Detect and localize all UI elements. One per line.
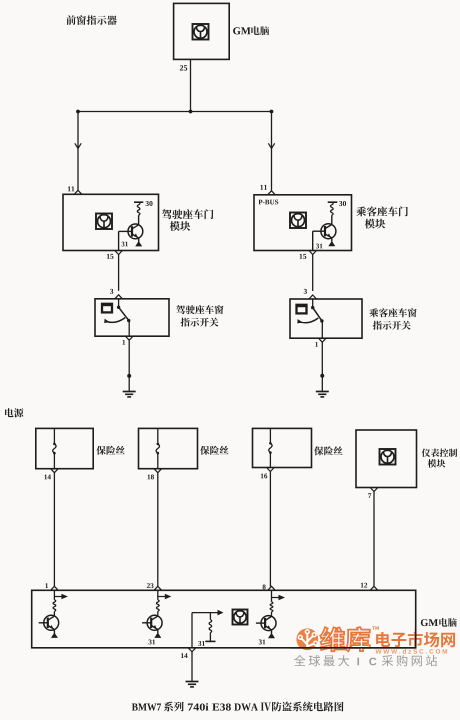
branch arrow T2 — [158, 594, 172, 599]
switch S1 throw arc — [104, 318, 125, 323]
connector pin 3 S2 — [309, 295, 317, 299]
label 16 (F3) — [261, 474, 267, 479]
watermark url — [376, 649, 448, 654]
fuse F2 box — [139, 428, 198, 468]
wire F3 to GM pin8 — [269, 472, 271, 587]
label 1 (S1) — [123, 340, 126, 345]
module U3: passenger door module box — [254, 195, 352, 251]
pin 25 label — [180, 65, 187, 70]
label passenger door module L2 — [365, 219, 386, 229]
label 14 (U5) — [181, 653, 187, 658]
junction dot right — [270, 110, 274, 114]
connector pin 12 (U5) — [370, 586, 378, 590]
label GM电脑 (U5) — [421, 618, 457, 627]
wire pin14 to ground — [191, 652, 193, 682]
watermark slogan — [294, 655, 437, 666]
pin 8 label (U5) — [263, 585, 266, 590]
base stub Q3 — [39, 622, 48, 624]
icon in U3 — [290, 213, 306, 229]
fuse F3 box — [253, 428, 312, 467]
label instrument module L1 — [422, 449, 458, 458]
switch S2 contact — [311, 299, 324, 338]
connector pin 1 (U5) — [51, 586, 59, 590]
transistor Q5 — [261, 616, 276, 631]
base wire Q2 — [313, 231, 325, 250]
connector pin 23 (U5) — [154, 586, 162, 590]
connector pin 14 (U5) — [188, 648, 196, 652]
label 15 (U3) — [300, 254, 307, 259]
emitter terminal Q3 — [51, 630, 58, 638]
window icon S1 — [102, 304, 112, 313]
junction dot S2 ground wire — [320, 374, 324, 378]
label instrument module L2 — [428, 459, 446, 467]
connector pin 7 (U4) — [370, 488, 378, 492]
P-BUS label — [258, 200, 278, 205]
flow arrow right drop — [268, 143, 274, 148]
terminal 31 bar — [205, 640, 215, 642]
switch S2: passenger window indicator switch box — [290, 299, 362, 338]
internal node wire 31 — [192, 610, 224, 616]
ground G1 — [123, 392, 136, 397]
label 31 (U2) — [122, 242, 128, 247]
fuse F2 element — [156, 428, 159, 468]
caption title — [132, 702, 344, 712]
wire horizontal branch — [78, 111, 272, 113]
junction dot S1 ground wire — [127, 374, 131, 378]
module U4: instrument control module box — [356, 430, 417, 488]
wire S1-1 to ground — [128, 340, 130, 391]
wire U1 pin25 down — [190, 59, 192, 111]
watermark TM — [372, 626, 379, 629]
switch S1: driver window indicator switch box — [95, 299, 169, 336]
label 3 (S2) — [304, 289, 307, 294]
label 31 (U3) — [316, 244, 322, 249]
label driver window switch L2 — [180, 318, 218, 327]
connector pin 14 (F1) — [51, 469, 59, 473]
icon in U4 — [380, 449, 396, 465]
label power supply — [5, 408, 23, 417]
label 1 (S2) — [315, 342, 318, 347]
pin 11 label (left) — [68, 186, 74, 191]
terminal 30 bar (U2) — [134, 201, 143, 203]
module U1: GM computer box — [174, 3, 230, 59]
label 7 (U4) — [368, 493, 371, 498]
label passenger window switch L2 — [373, 321, 411, 330]
wire S2-1 to ground — [321, 342, 323, 391]
connector pin 11 left — [74, 190, 82, 194]
connector pin 1 S2 — [319, 338, 327, 342]
module U2: driver door module box — [63, 194, 159, 250]
connector pin 8 (U5) — [268, 586, 276, 590]
label passenger door module L1 — [356, 206, 408, 216]
watermark logo — [296, 628, 318, 650]
icon in U2 — [96, 214, 112, 230]
flow arrow left drop — [75, 143, 81, 148]
wire F2 to GM pin23 — [157, 473, 159, 587]
coil T3 — [270, 590, 273, 615]
coil to term30 (U2) — [137, 202, 140, 224]
connector pin 18 (F2) — [154, 469, 162, 473]
label fuse F1 — [96, 446, 124, 455]
connector pin 1 S1 — [125, 336, 133, 340]
label 31 (bar) — [198, 641, 205, 646]
connector pin 11 right — [268, 191, 276, 195]
transistor Q2 — [321, 224, 336, 239]
fuse F1 element — [53, 428, 56, 468]
coil T2 — [156, 590, 159, 615]
base wire Q1 — [119, 231, 132, 250]
pin 23 label (U5) — [147, 583, 154, 588]
transistor Q3 — [44, 615, 59, 630]
junction dot left — [76, 110, 80, 114]
label passenger window switch L1 — [369, 308, 416, 317]
pin 11 label (right) — [260, 185, 267, 190]
watermark 维库 — [320, 627, 369, 651]
label 30 (U3) — [339, 201, 346, 206]
emitter terminal Q2 — [328, 238, 335, 246]
switch S1 contact — [117, 299, 130, 336]
terminal 30 bar (U3) — [328, 201, 338, 203]
connector pin 3 S1 — [115, 295, 123, 299]
pin 1 label (U5) — [45, 583, 48, 588]
label 15 (U2) — [107, 254, 114, 259]
emitter terminal Q4 — [154, 630, 161, 638]
branch arrow T1 — [54, 594, 68, 599]
label 30 (U2) — [146, 201, 153, 206]
wire drop to passenger door module — [271, 112, 273, 192]
label: front window indicator — [66, 15, 116, 25]
base stub Q4 — [142, 622, 151, 624]
wire U3-15 to S2-3 — [312, 255, 314, 292]
label driver door module L2 — [170, 221, 191, 231]
connector pin 16 (F3) — [267, 468, 275, 472]
branch arrow T3 — [272, 595, 286, 600]
wire U4 to GM pin12 — [373, 492, 375, 587]
label driver door module L1 — [162, 209, 213, 219]
base stub Q5 — [256, 622, 265, 624]
window icon S2 — [297, 305, 307, 314]
coil to 31 bar — [209, 613, 212, 642]
module U5 edge overlay — [290, 628, 416, 648]
label 31 (Q4) — [149, 640, 156, 645]
label driver window switch L1 — [176, 305, 223, 314]
junction dot center — [189, 110, 193, 114]
ground G3 — [186, 682, 199, 687]
transistor Q1 — [128, 224, 143, 239]
fuse F3 element — [269, 428, 272, 467]
wire U2-15 to S1-3 — [118, 255, 120, 291]
label GM电脑 (U1) — [233, 26, 269, 35]
indicator icon in U1 — [193, 24, 209, 40]
wire drop to driver door module — [77, 112, 79, 191]
transistor Q4 — [147, 615, 162, 630]
connector pin 15 (U3) — [309, 251, 317, 255]
coil T1 — [53, 590, 56, 615]
icon in U5 — [233, 610, 248, 625]
pin 12 label (U5) — [361, 583, 367, 588]
label 18 (F2) — [148, 475, 154, 480]
coil to term30 (U3) — [330, 202, 333, 224]
label 31 (Q5) — [259, 640, 266, 645]
fuse F1 box — [36, 428, 93, 468]
ground G2 — [316, 392, 329, 397]
wire node to pin14 — [191, 613, 193, 648]
label fuse F2 — [200, 446, 228, 455]
label 3 (S1) — [110, 289, 113, 294]
emitter terminal Q5 — [268, 630, 275, 638]
connector pin 15 (U2) — [115, 251, 123, 255]
switch S2 throw arc — [297, 318, 318, 323]
wire F1 to GM pin1 — [53, 473, 55, 587]
watermark 电子市场网 — [376, 632, 455, 648]
label fuse F3 — [314, 446, 342, 455]
emitter terminal Q1 — [135, 238, 142, 246]
module U5: GM computer main box — [32, 590, 416, 648]
label 14 (F1) — [44, 475, 50, 480]
